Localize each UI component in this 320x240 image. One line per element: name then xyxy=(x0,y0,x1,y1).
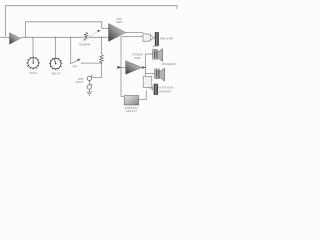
arrowhead power amp output xyxy=(142,66,146,69)
wire stub speaker 1 xyxy=(145,53,152,55)
resistor R1 vertical zigzag xyxy=(100,55,104,63)
wire inner loop to mix amp upper input xyxy=(26,22,109,38)
wire mix amp output xyxy=(126,32,144,34)
svg-text:SPEAKER: SPEAKER xyxy=(158,90,170,94)
svg-text:DELAY: DELAY xyxy=(51,72,61,76)
wire mix node vertical lower to input jack xyxy=(92,63,102,78)
wire input from left edge xyxy=(0,36,10,38)
wire drop to MULT knob xyxy=(32,37,34,56)
speaker SP1 xyxy=(153,49,163,62)
wire mix node vertical upper xyxy=(101,37,103,55)
jack J1 guitar input circles xyxy=(87,75,92,89)
wire ramping circuit output xyxy=(139,90,147,99)
plug P1 to amplifier xyxy=(143,34,155,42)
jack J3 extension speaker jack bar xyxy=(154,84,158,95)
svg-text:REVERB: REVERB xyxy=(79,43,90,47)
wire outer feedback loop xyxy=(6,6,178,38)
svg-text:AMPLIFIER: AMPLIFIER xyxy=(159,36,174,40)
arrowhead into power amp xyxy=(117,66,121,69)
wire stub speaker 2 xyxy=(145,73,154,75)
switch contact dots xyxy=(70,63,71,64)
ramping circuit block xyxy=(124,96,138,106)
plug P2 extension speaker plug xyxy=(143,76,153,90)
ground symbol xyxy=(87,89,92,95)
svg-text:CIRCUIT: CIRCUIT xyxy=(126,109,138,113)
wire lower prong / tap to power amp vertical xyxy=(121,37,143,97)
jack J2 amplifier jack bar xyxy=(155,32,159,46)
svg-text:INPUT: INPUT xyxy=(75,80,83,84)
potentiometer knob MULT xyxy=(27,56,40,69)
switch lever arrowhead xyxy=(77,59,80,62)
wire power amp output xyxy=(142,67,146,69)
reverb spring element xyxy=(84,32,87,40)
svg-text:AMP: AMP xyxy=(115,20,123,24)
svg-text:AMP: AMP xyxy=(133,56,140,60)
svg-text:EXTENSION: EXTENSION xyxy=(158,85,173,89)
svg-text:TAP: TAP xyxy=(72,65,77,69)
svg-text:SPEAKERS: SPEAKERS xyxy=(162,62,176,66)
svg-text:MULT: MULT xyxy=(29,71,37,75)
wire switch output to mix node xyxy=(82,62,102,64)
wire drop to TAP switch xyxy=(70,37,72,63)
speaker SP2 xyxy=(155,68,165,81)
wire power amp input stub xyxy=(121,66,126,68)
wire drop to DELAY knob xyxy=(55,37,57,57)
node junction dots on bus xyxy=(25,37,102,64)
reverb wiper arrow xyxy=(82,31,98,41)
switch TAP lever xyxy=(72,60,79,64)
op-amp U2 mix amp xyxy=(109,24,126,42)
wire speaker junction vertical xyxy=(144,54,146,76)
op-amp U3 power amp xyxy=(126,61,142,75)
wire main signal bus xyxy=(20,36,109,38)
svg-text:AMP: AMP xyxy=(152,44,159,48)
op-amp U1 input amplifier xyxy=(10,33,21,45)
potentiometer knob DELAY xyxy=(49,57,62,70)
